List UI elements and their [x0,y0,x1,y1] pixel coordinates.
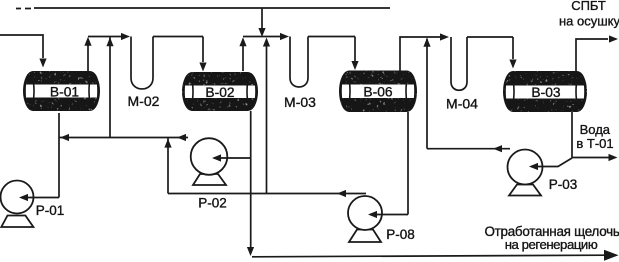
svg-text:Вода: Вода [580,122,611,137]
wire M-02 U-tube body [131,37,153,89]
vessel B-01 [23,71,100,111]
wire M-03 U-tube body [290,37,308,88]
vessel B-02 [182,72,258,111]
arrow left on P-03 discharge [493,145,502,152]
svg-text:Р-03: Р-03 [549,177,578,192]
arrow down into B-03 top [509,60,516,69]
wire P-08 suction [370,214,408,216]
arrow right into M-04 [440,33,449,40]
wire B-03 top outlet to dryer [576,39,608,71]
arrow down into B-01 top [39,59,46,68]
wire B-03 bottom drain [571,112,573,158]
wire waste header bottom [252,255,605,257]
svg-text:В-02: В-02 [205,85,234,100]
arrow up riser x168 [164,139,171,148]
arrow up B-01 outlet [84,37,91,46]
svg-text:В-01: В-01 [50,85,79,100]
pump P-03 [508,150,543,196]
wire M-02 to B-02 [153,37,203,63]
vessel B-03 [503,71,587,112]
arrow down into junction from header [258,28,265,37]
wire P-01 suction [21,197,59,199]
arrow down B-02 drain to waste [247,247,254,256]
svg-text:Р-02: Р-02 [198,196,227,211]
wire lower row y137 [59,137,188,139]
wire riser x427 from P-03 discharge [426,39,428,149]
wire junction row B-01 to M-02 [88,36,122,38]
wire P-02 suction [214,157,251,159]
wire riser x266 to M-03 junction [266,44,268,194]
vessel B-06 [339,71,417,113]
wire riser x110 from lower row [109,37,111,138]
wire B-02 top outlet riser [242,46,244,72]
wire junction row B-02 to M-03 [243,36,281,38]
arrow right water to T-01 outlet [609,154,618,161]
wire header drop to B-02 junction [261,8,263,28]
wire P-03 suction [531,158,572,167]
wire M-04 U-tube body [451,37,467,90]
pump P-02 [191,138,228,185]
wire B-06 bottom drain [407,112,409,215]
pump P-01 [1,181,34,228]
svg-text:М-04: М-04 [446,96,478,112]
arrow right into M-02 [121,33,130,40]
svg-text:М-02: М-02 [128,93,160,109]
svg-text:на регенерацию: на регенерацию [505,237,598,252]
wire P-03 discharge row y148 [427,148,510,150]
wire M-04 to B-03 [467,37,513,59]
wire feed line into B-01 [0,35,43,58]
arrow up B-02 outlet [239,37,246,46]
arrow left on P-08 discharge row [337,190,346,197]
arrow down into B-06 top [351,61,358,70]
wire top header line [16,7,390,10]
arrow up riser x110 [106,37,113,46]
svg-text:в Т-01: в Т-01 [576,136,613,151]
arrow right SPBT outlet [609,35,618,42]
wire B-06 top outlet to M-04 [400,37,441,71]
wire riser x168 from P-08 discharge row [167,138,169,194]
arrow right into M-03 [280,33,289,40]
arrow left on lower row near P-02 [177,134,186,141]
arrow right waste header [604,250,619,261]
svg-text:на осушку: на осушку [559,14,619,29]
arrow down into B-02 top [199,63,206,72]
wire P-08 discharge row y192 [168,193,366,195]
wire M-03 to B-06 [308,37,355,62]
wire tee to water outlet [572,157,609,159]
arrow left on lower row near drain [60,134,69,141]
arrow up riser x427 [423,38,430,47]
arrow up riser x266 [263,38,270,47]
wire B-02 bottom drain [250,111,252,251]
svg-text:В-03: В-03 [531,85,560,100]
pump P-08 [348,196,382,242]
svg-text:СПБТ: СПБТ [571,0,606,13]
wire B-01 bottom drain [58,113,60,198]
svg-text:В-06: В-06 [363,85,392,100]
svg-text:Р-01: Р-01 [36,203,65,218]
svg-text:М-03: М-03 [284,94,316,110]
svg-text:Р-08: Р-08 [386,227,415,242]
wire B-01 top outlet riser [87,45,89,71]
